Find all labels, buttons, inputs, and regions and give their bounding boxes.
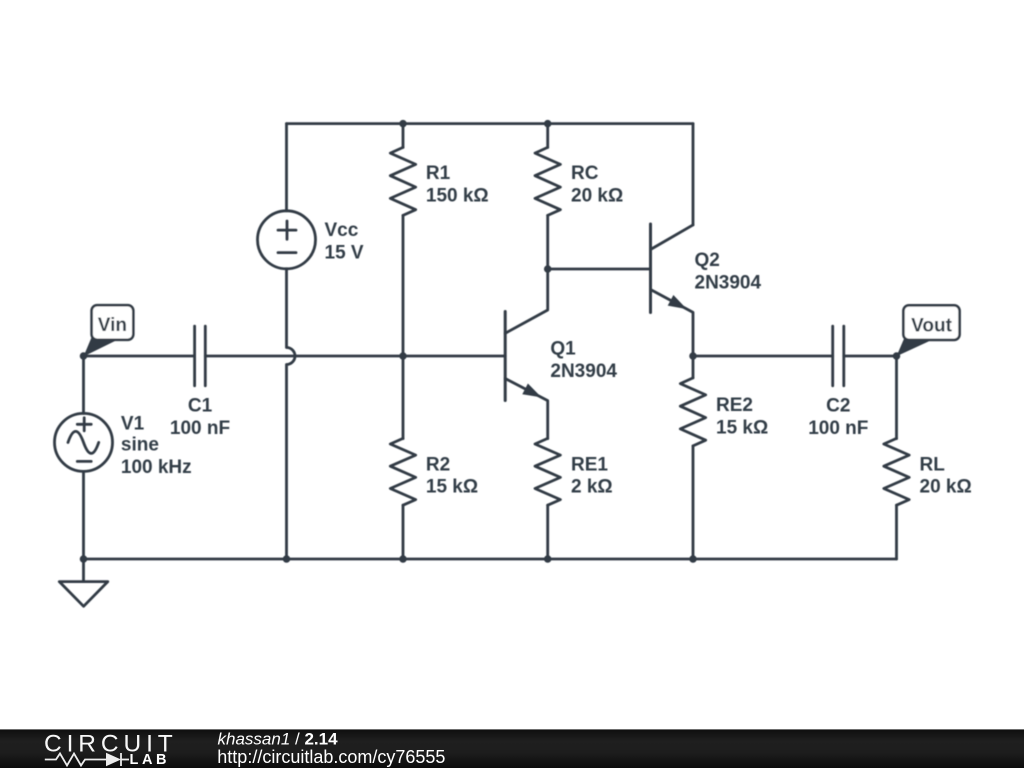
resistor R1 (402, 124, 405, 148)
flag Vin (84, 305, 134, 356)
svg-text:khassan1 / 2.14: khassan1 / 2.14 (218, 729, 339, 748)
svg-text:Q2: Q2 (695, 250, 720, 271)
svg-text:15 kΩ: 15 kΩ (426, 477, 478, 498)
wire Q1 collector to Q2 base (548, 268, 651, 271)
resistor RL (895, 356, 898, 439)
flag Vout (897, 305, 960, 356)
node Q1 base (399, 352, 407, 360)
node Vin (80, 352, 88, 360)
wire top rail (287, 122, 694, 125)
wire output rail left (693, 355, 833, 358)
node ground RE2 (689, 555, 697, 563)
svg-text:RE2: RE2 (716, 395, 753, 416)
node Vout (893, 352, 901, 360)
svg-text:2N3904: 2N3904 (550, 361, 617, 382)
svg-text:15 kΩ: 15 kΩ (716, 418, 768, 439)
logo diode (106, 753, 121, 766)
capacitor C1 (195, 326, 206, 386)
svg-text:Vcc: Vcc (325, 220, 359, 241)
capacitor C2 (833, 326, 844, 386)
svg-text:RC: RC (571, 163, 599, 184)
footer bar (0, 729, 1024, 768)
svg-text:C1: C1 (188, 396, 213, 417)
svg-text:150 kΩ: 150 kΩ (426, 186, 489, 207)
voltage source Vcc (258, 211, 316, 269)
wire V1 bottom lead (82, 471, 85, 559)
svg-text:2N3904: 2N3904 (695, 273, 762, 294)
svg-text:RL: RL (920, 454, 946, 475)
svg-text:15 V: 15 V (325, 243, 364, 264)
ground (82, 559, 85, 582)
wire Vcc top lead (285, 124, 288, 211)
node ground R2 (399, 555, 407, 563)
svg-text:R1: R1 (426, 163, 451, 184)
voltage source V1 (55, 413, 113, 471)
node Q1 collector (544, 265, 552, 273)
svg-text:http://circuitlab.com/cy76555: http://circuitlab.com/cy76555 (217, 747, 445, 767)
Q1 emitter arrow (522, 384, 541, 398)
resistor RE2 (692, 356, 695, 378)
node ground V1 (80, 555, 88, 563)
node ground RE1 (544, 555, 552, 563)
wire V1 top lead (82, 356, 85, 413)
svg-text:20 kΩ: 20 kΩ (571, 186, 623, 207)
svg-text:sine: sine (121, 435, 159, 456)
wire bottom rail (84, 558, 897, 561)
transistor Q2 (649, 224, 652, 313)
svg-text:100 kHz: 100 kHz (121, 457, 192, 478)
logo resistor zigzag (45, 753, 129, 766)
wire input rail left (84, 355, 195, 358)
wire output rail right (844, 355, 897, 358)
svg-text:Vin: Vin (98, 315, 127, 336)
node Q2 emitter (689, 352, 697, 360)
wire Q2 collector riser (692, 124, 695, 225)
svg-text:V1: V1 (121, 413, 145, 434)
wire input rail right (205, 355, 505, 358)
svg-text:100 nF: 100 nF (808, 418, 868, 439)
svg-text:RE1: RE1 (571, 454, 608, 475)
node ground Vcc (283, 555, 291, 563)
Q2 emitter arrow (668, 295, 687, 309)
svg-text:Q1: Q1 (550, 339, 576, 360)
resistor RC (546, 124, 549, 148)
svg-text:20 kΩ: 20 kΩ (920, 477, 972, 498)
svg-text:100 nF: 100 nF (170, 418, 230, 439)
transistor Q1 (504, 312, 507, 401)
svg-text:Vout: Vout (911, 316, 952, 337)
resistor R2 (402, 356, 405, 439)
resistor RE1 (535, 438, 560, 505)
node RC top (544, 120, 552, 128)
wire Vcc bottom lead with hop over input rail (287, 269, 296, 559)
svg-text:LAB: LAB (130, 752, 171, 768)
svg-text:C2: C2 (826, 396, 850, 417)
svg-text:2 kΩ: 2 kΩ (571, 477, 613, 498)
node R1 top (399, 120, 407, 128)
svg-text:R2: R2 (426, 454, 450, 475)
